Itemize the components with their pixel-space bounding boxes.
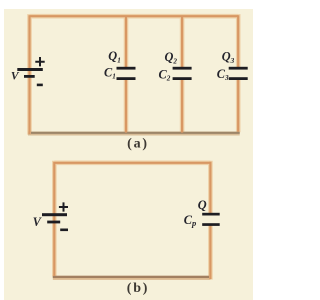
- svg-text:V: V: [11, 71, 20, 83]
- svg-text:Q: Q: [198, 198, 207, 212]
- svg-text:(a): (a): [127, 136, 149, 151]
- svg-text:(b): (b): [127, 281, 150, 296]
- svg-text:V: V: [33, 215, 42, 229]
